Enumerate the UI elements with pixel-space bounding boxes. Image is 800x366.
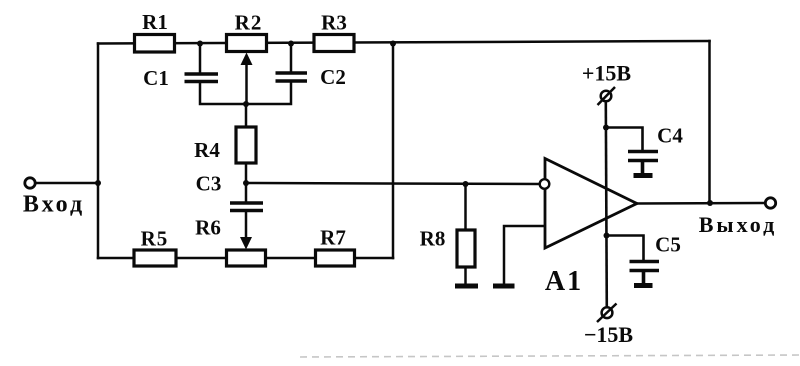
terminal input	[25, 178, 35, 188]
ground at inverting input	[493, 284, 515, 289]
svg-text:A1: A1	[545, 266, 583, 297]
wire C1 branch	[199, 44, 202, 73]
svg-text:Выход: Выход	[699, 212, 778, 237]
node output junction	[707, 200, 713, 206]
wire C5 branch	[607, 236, 644, 261]
wire op-amp output	[637, 202, 766, 205]
svg-text:R6: R6	[195, 216, 221, 240]
svg-text:R1: R1	[142, 10, 168, 34]
ground bar under C4	[634, 173, 653, 178]
node C5 junction	[604, 233, 610, 239]
wire supply vertical through op-amp	[606, 101, 607, 308]
svg-text:+15В: +15В	[582, 61, 632, 86]
svg-text:R3: R3	[321, 11, 347, 35]
wire top rail	[98, 41, 710, 44]
svg-text:C3: C3	[196, 172, 222, 196]
wire C4 branch	[606, 128, 643, 151]
wire input lead	[36, 182, 98, 185]
node C4 junction	[603, 125, 609, 131]
resistor R6 (potentiometer)	[227, 250, 266, 266]
node top rail to right vertical	[390, 41, 396, 47]
resistor R4	[236, 127, 256, 163]
op-amp A1 triangle	[545, 159, 637, 249]
R2 wiper arrow	[241, 53, 253, 66]
wire C3 bottom stem to R6 wiper	[245, 212, 248, 238]
svg-text:R8: R8	[420, 227, 446, 251]
node R2-C2 junction	[288, 41, 294, 47]
wire R2 wiper stem	[245, 62, 248, 104]
svg-text:−15В: −15В	[584, 322, 634, 347]
op-amp noninverting input circle	[540, 179, 550, 189]
svg-text:R4: R4	[194, 138, 220, 162]
wire left vertical	[97, 44, 100, 259]
wire bottom rail	[98, 257, 393, 260]
capacitor C5	[630, 262, 660, 284]
node R1-C1 junction	[197, 41, 203, 47]
svg-text:Вход: Вход	[23, 192, 85, 218]
wire R8 stems	[464, 184, 467, 230]
wire C3 top stem	[245, 183, 248, 201]
ground bar under C5	[634, 283, 653, 288]
wire middle node to op-amp	[246, 183, 540, 184]
resistor R5	[134, 250, 176, 266]
wire right vertical to output	[708, 41, 711, 203]
terminal -15V	[602, 307, 613, 318]
svg-text:C2: C2	[320, 65, 346, 89]
R6 wiper arrow	[240, 237, 252, 250]
capacitor C1	[185, 74, 219, 82]
resistor R7	[316, 250, 355, 266]
node R4-C3 middle junction	[243, 180, 249, 186]
svg-text:R2: R2	[235, 11, 263, 35]
svg-text:C4: C4	[657, 124, 683, 148]
faint scan artifact line	[300, 355, 800, 357]
wire right vertical of twin-T block	[392, 44, 395, 259]
capacitor C3	[230, 203, 263, 211]
resistor R3	[314, 35, 354, 52]
wire inverting input	[504, 226, 545, 284]
svg-text:R5: R5	[141, 227, 169, 251]
resistor R8	[457, 230, 475, 267]
wire R4 stems	[245, 104, 248, 127]
node input junction	[95, 180, 101, 186]
terminal +15V	[601, 91, 612, 102]
terminal output	[765, 198, 775, 208]
svg-text:C5: C5	[655, 233, 681, 257]
capacitor C2	[276, 73, 308, 81]
resistor R1	[135, 35, 175, 53]
ground under R8	[455, 284, 478, 289]
svg-text:R7: R7	[320, 226, 346, 250]
resistor R2 (potentiometer)	[227, 35, 267, 52]
node C1-C2-R4 junction	[243, 101, 249, 107]
capacitor C4	[628, 152, 658, 174]
node R8 junction	[463, 181, 469, 187]
svg-text:C1: C1	[143, 66, 169, 90]
wire C2 branch	[290, 44, 293, 72]
